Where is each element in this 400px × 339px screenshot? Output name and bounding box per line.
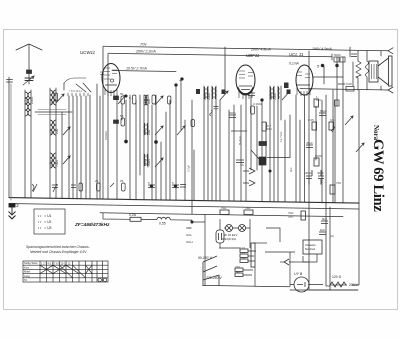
svg-text:2000: 2000: [30, 97, 34, 104]
svg-text:7 8 9 10 11: 7 8 9 10 11: [69, 89, 82, 93]
svg-text:6,1mA: 6,1mA: [289, 62, 300, 66]
svg-text:UBF11: UBF11: [246, 53, 260, 58]
svg-text:8μF: 8μF: [289, 167, 293, 172]
svg-text:UBF: UBF: [186, 226, 192, 230]
svg-text:110: 110: [240, 246, 245, 250]
svg-text:200: 200: [147, 129, 151, 135]
svg-text:UCL 11: UCL 11: [289, 52, 304, 57]
svg-text:MΩ: MΩ: [267, 127, 272, 131]
svg-text:1000: 1000: [24, 97, 28, 104]
svg-text:8μF: 8μF: [322, 217, 327, 221]
svg-text:100: 100: [147, 98, 151, 104]
svg-text:90-150 V: 90-150 V: [198, 256, 212, 260]
svg-text:120 Ω: 120 Ω: [332, 275, 342, 279]
svg-text:50: 50: [120, 92, 124, 96]
svg-text:200V 4.8mA: 200V 4.8mA: [250, 48, 271, 52]
svg-text:40μF: 40μF: [305, 171, 312, 175]
svg-text:Netzteil: Netzteil: [305, 247, 315, 251]
svg-text:Lang: Lang: [24, 274, 30, 278]
svg-text:5kΩ: 5kΩ: [288, 215, 294, 219]
svg-text:2000: 2000: [207, 93, 211, 100]
svg-text:5: 5: [172, 181, 174, 185]
svg-text:100: 100: [49, 98, 53, 104]
svg-text:Kurz: Kurz: [24, 265, 30, 269]
svg-text:• • = U3: • • = U3: [38, 226, 52, 230]
svg-text:• • = U1: • • = U1: [38, 214, 52, 218]
svg-text:3000: 3000: [49, 160, 53, 167]
svg-text:5: 5: [317, 64, 320, 69]
svg-text:Mittel: Mittel: [24, 270, 31, 274]
svg-text:0,55: 0,55: [159, 222, 166, 226]
svg-text:7kΩ: 7kΩ: [245, 206, 251, 210]
svg-text:(A): (A): [330, 234, 334, 238]
svg-text:5: 5: [148, 181, 150, 185]
svg-text:UY B: UY B: [294, 272, 303, 276]
svg-text:10.5V 2.7mA: 10.5V 2.7mA: [126, 67, 147, 71]
svg-text:3000: 3000: [147, 159, 151, 166]
svg-text:B+8μF: B+8μF: [238, 136, 242, 145]
svg-text:0,05: 0,05: [308, 118, 314, 122]
svg-text:50: 50: [120, 114, 124, 118]
svg-text:0,1: 0,1: [129, 96, 134, 100]
svg-text:8μF: 8μF: [320, 228, 325, 232]
svg-text:125: 125: [240, 251, 245, 255]
svg-text:25: 25: [261, 143, 265, 147]
svg-text:240: 240: [235, 270, 240, 274]
svg-text:200: 200: [55, 128, 59, 134]
svg-text:200 V: 200 V: [349, 283, 359, 287]
svg-text:150: 150: [240, 256, 245, 260]
svg-text:5000: 5000: [334, 53, 341, 57]
svg-text:5000: 5000: [229, 111, 236, 115]
svg-text:220-240 V: 220-240 V: [205, 276, 222, 280]
svg-text:TA: TA: [240, 163, 244, 167]
svg-text:UCW11: UCW11: [80, 50, 96, 55]
svg-text:100kΩ: 100kΩ: [104, 130, 108, 140]
svg-text:200V 2.2mA: 200V 2.2mA: [135, 50, 156, 54]
svg-text:7kΩ: 7kΩ: [221, 206, 227, 210]
svg-text:40μF: 40μF: [317, 171, 324, 175]
svg-text:Netzteil und Chassis-Empfänger: Netzteil und Chassis-Empfänger 4,5V: [30, 250, 87, 254]
svg-text:70v: 70v: [140, 42, 147, 47]
svg-text:0,5μF: 0,5μF: [187, 165, 191, 172]
svg-text:0,2A: 0,2A: [129, 213, 137, 217]
svg-text:MΩ: MΩ: [316, 98, 321, 102]
svg-text:0,1MΩ: 0,1MΩ: [253, 102, 263, 106]
svg-text:Stellg.Taste: Stellg.Taste: [24, 261, 38, 265]
svg-text:GW 69 Linz: GW 69 Linz: [370, 139, 386, 212]
svg-text:13,7mA: 13,7mA: [279, 132, 283, 142]
svg-text:• • = U2: • • = U2: [38, 220, 52, 224]
svg-text:1 2 3 4 5 6 7 8 9 10 11 12: 1 2 3 4 5 6 7 8 9 10 11 12: [41, 261, 71, 265]
svg-text:190V 4.9mA: 190V 4.9mA: [312, 47, 332, 51]
svg-text:700: 700: [336, 181, 341, 185]
svg-text:50μF: 50μF: [320, 109, 327, 113]
svg-text:ZF=468/473kHz: ZF=468/473kHz: [74, 222, 110, 228]
svg-text:0,5: 0,5: [330, 118, 335, 122]
svg-text:0,05: 0,05: [346, 82, 352, 86]
svg-text:Spannungsunterschied zwischen: Spannungsunterschied zwischen Chassis-: [26, 245, 91, 249]
svg-text:2000: 2000: [273, 93, 277, 100]
svg-text:25: 25: [120, 179, 124, 183]
svg-text:220: 220: [235, 265, 240, 269]
svg-text:TA: TA: [24, 278, 27, 282]
svg-text:25: 25: [95, 179, 99, 183]
svg-text:0,34(0,3)A: 0,34(0,3)A: [222, 237, 236, 241]
svg-text:100: 100: [49, 128, 53, 134]
svg-text:45μF: 45μF: [306, 141, 313, 145]
svg-text:5000: 5000: [315, 154, 322, 158]
svg-text:UCL: UCL: [186, 233, 192, 237]
svg-text:7000: 7000: [55, 160, 59, 167]
svg-text:UCH: UCH: [186, 240, 193, 244]
